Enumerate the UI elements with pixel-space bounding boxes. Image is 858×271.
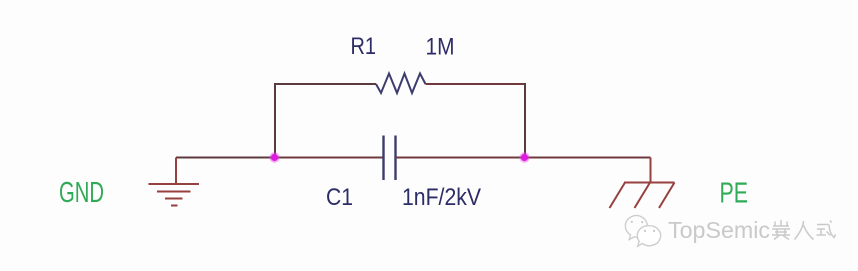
capacitor C1	[384, 136, 396, 181]
wire left vertical	[274, 83, 276, 158]
junction node A dot	[269, 152, 279, 162]
svg-text:C1: C1	[326, 184, 353, 211]
wire middle: GND stem to left junction	[176, 157, 274, 159]
ground PE (chassis/protective-earth symbol)	[610, 158, 675, 209]
watermark text (Chinese: embedded) drawn as strokes	[772, 220, 836, 240]
svg-text:GND: GND	[59, 177, 104, 209]
svg-text:R1: R1	[351, 33, 377, 60]
wire middle: C1 right plate to right junction	[396, 157, 526, 159]
svg-text:1nF/2kV: 1nF/2kV	[402, 184, 482, 211]
ground (earth symbol, GND net)	[149, 158, 200, 206]
wire right vertical	[524, 83, 526, 158]
wire middle: left junction to C1 left plate	[274, 157, 384, 159]
wire top-right horizontal (R1 pin 2 to node B)	[426, 83, 526, 85]
svg-text:TopSemic: TopSemic	[668, 217, 770, 243]
wire top-left horizontal (node A to R1 pin 1)	[275, 83, 376, 85]
svg-text:PE: PE	[720, 178, 749, 210]
resistor R1	[376, 74, 426, 94]
svg-text:1M: 1M	[426, 34, 455, 61]
watermark logo (chat bubbles)	[625, 216, 660, 247]
wire middle: right junction to PE stem	[525, 157, 651, 159]
junction node B dot	[519, 152, 529, 162]
